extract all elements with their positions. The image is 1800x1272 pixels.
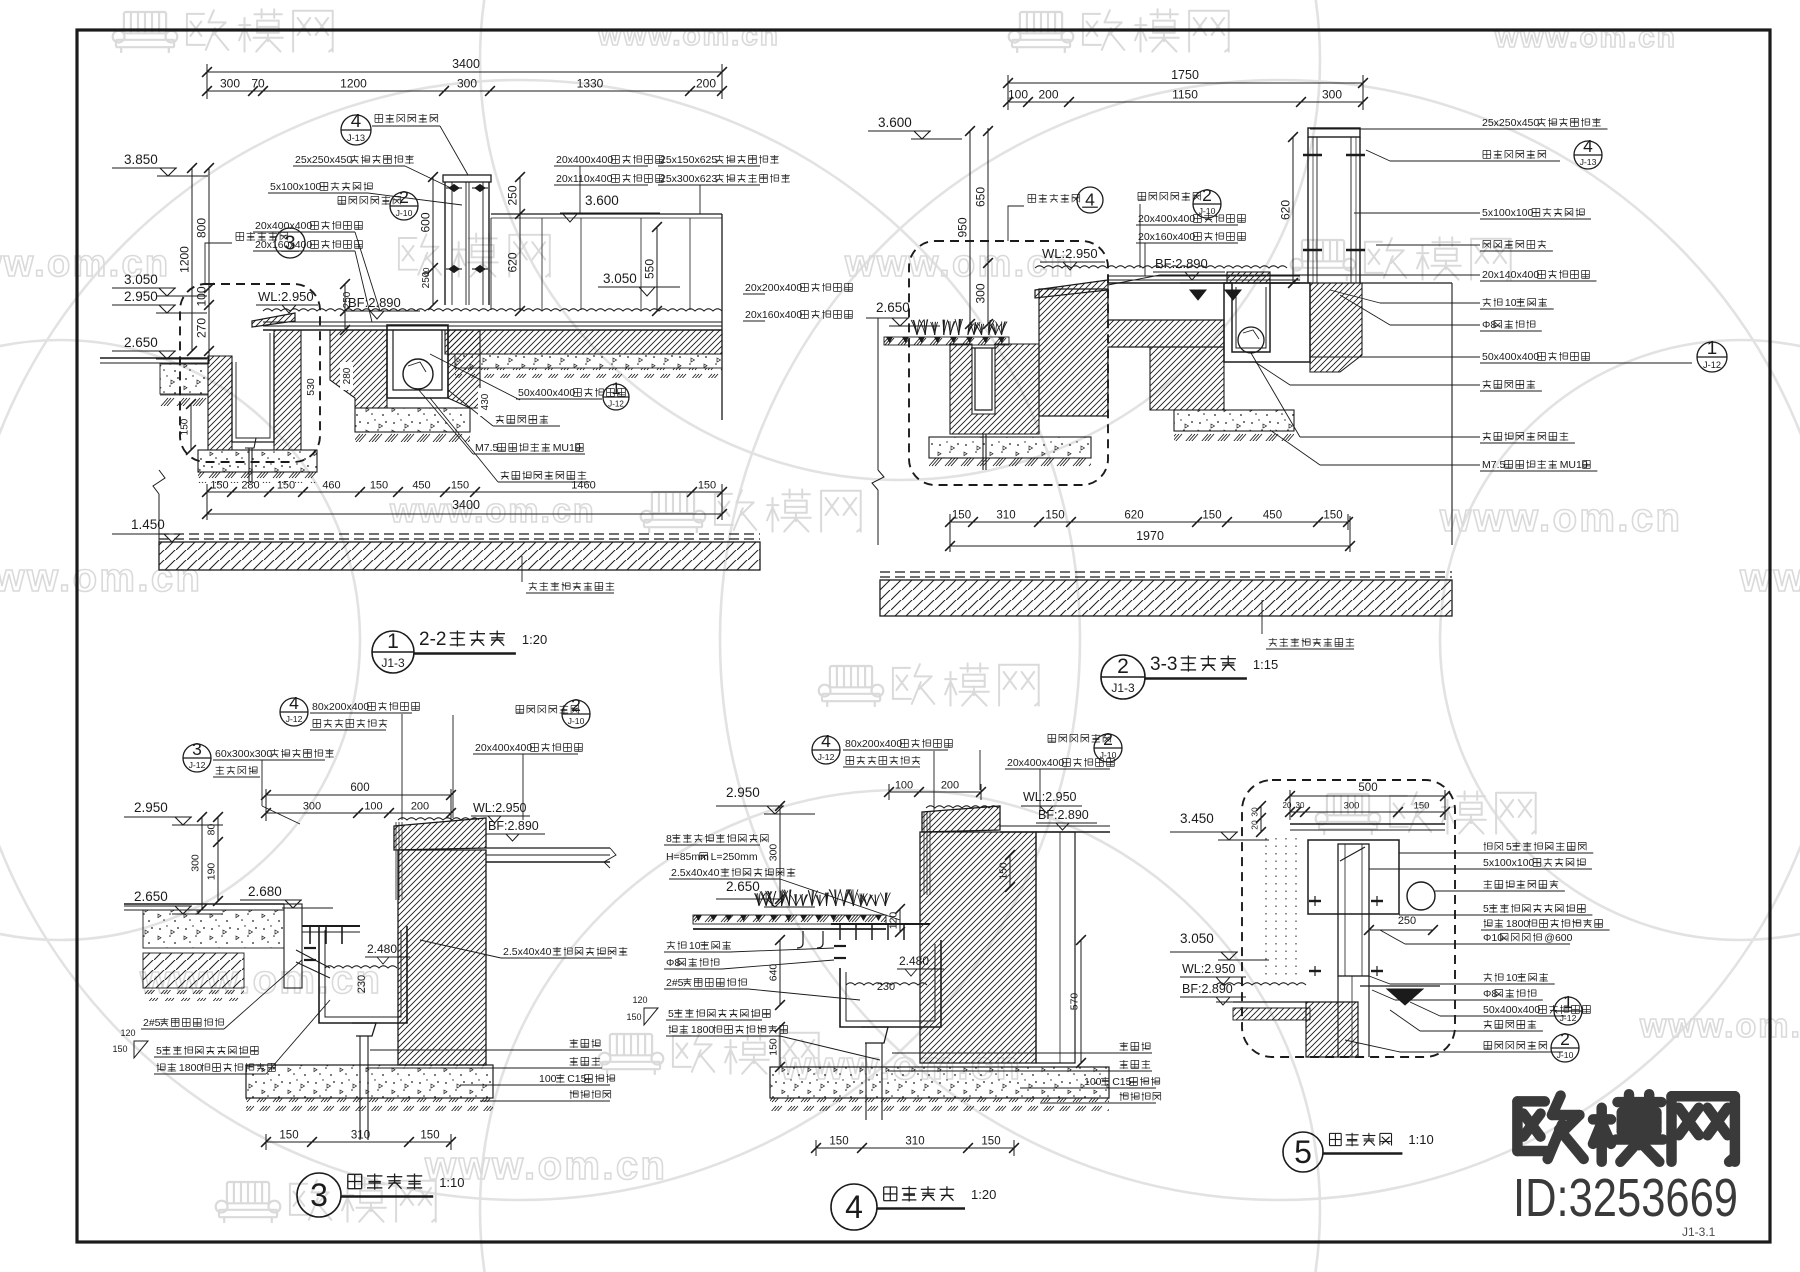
svg-text:WL:2.950: WL:2.950 (473, 801, 527, 815)
svg-text:150: 150 (1202, 510, 1221, 522)
svg-text:190: 190 (206, 863, 218, 881)
svg-text:3400: 3400 (452, 57, 480, 71)
svg-text:30: 30 (1296, 801, 1305, 810)
svg-text:3: 3 (192, 739, 202, 759)
watermark arcs (0, 80, 1080, 1200)
D2 basin floor layers (1108, 275, 1300, 277)
svg-text:300: 300 (190, 854, 202, 872)
svg-text:570: 570 (1069, 993, 1081, 1011)
svg-text:1:20: 1:20 (522, 632, 547, 647)
D1 left pool footing earth hatch (198, 472, 317, 483)
svg-text:2: 2 (1103, 729, 1113, 749)
svg-text:150: 150 (952, 510, 971, 522)
svg-text:80: 80 (206, 824, 218, 836)
svg-text:1460: 1460 (571, 480, 595, 492)
D3 leader drops (401, 714, 403, 820)
D3 title (297, 1173, 341, 1217)
D5 water curtain dashed (1265, 838, 1267, 975)
D4 right wall band (1036, 832, 1075, 1063)
D2 stone pillar top right (1308, 128, 1360, 137)
svg-text:2.650: 2.650 (876, 300, 910, 315)
svg-text:150: 150 (829, 1136, 848, 1148)
D3 basin floor right (486, 847, 610, 849)
svg-text:150: 150 (370, 480, 388, 492)
D5 label leaders (1399, 852, 1481, 854)
svg-text:2.5x40x40: 2.5x40x40 (671, 867, 720, 879)
svg-text:20x160x400: 20x160x400 (745, 309, 802, 321)
svg-text:J-13: J-13 (1580, 157, 1597, 167)
D2 slab label (1261, 600, 1263, 634)
svg-text:300: 300 (1322, 88, 1342, 102)
svg-text:150: 150 (1323, 510, 1342, 522)
D1 dim 150 left pool (190, 404, 192, 450)
svg-text:www.om.cn: www.om.cn (1494, 21, 1677, 54)
svg-text:100: 100 (1008, 88, 1028, 102)
site logo omw (1517, 1096, 1583, 1159)
svg-text:250: 250 (342, 291, 353, 308)
svg-text:230: 230 (356, 975, 368, 993)
D2 trough cover stone (1227, 272, 1270, 283)
svg-text:J1-3: J1-3 (381, 656, 405, 670)
D2 planter wall hatch (950, 344, 1039, 434)
svg-text:www.om.cn: www.om.cn (844, 243, 1075, 285)
svg-text:3.600: 3.600 (878, 115, 912, 130)
D5 bolts (1309, 900, 1321, 902)
svg-text:230: 230 (877, 981, 895, 993)
svg-text:WL:2.950: WL:2.950 (258, 289, 314, 304)
svg-text:20x200x400: 20x200x400 (745, 282, 802, 294)
D4 right labels (1120, 1042, 1151, 1051)
D1 title (372, 631, 414, 673)
svg-text:70: 70 (251, 77, 265, 91)
D2 left break line (877, 318, 879, 470)
svg-text:2: 2 (571, 695, 581, 715)
D1 shallow basin floor layers (263, 321, 722, 323)
D5 channel flap (1340, 847, 1365, 861)
svg-text:20x140x400: 20x140x400 (1482, 269, 1539, 281)
D3 left vertical dims (217, 817, 219, 901)
svg-text:@600: @600 (1544, 932, 1572, 944)
svg-text:5: 5 (1506, 841, 1512, 853)
svg-text:300: 300 (220, 77, 240, 91)
svg-text:2.650: 2.650 (726, 879, 760, 894)
svg-text:MU10: MU10 (553, 442, 581, 454)
D1 left pool outer wall hatch (208, 356, 232, 450)
svg-text:2: 2 (399, 187, 409, 207)
D1 mid hatched ground band (445, 330, 722, 354)
svg-text:150: 150 (277, 480, 295, 492)
D5 solid triangle mark (1387, 989, 1423, 1005)
D2 grass planting (911, 319, 1007, 335)
D3 wedge marks (134, 1041, 148, 1058)
svg-text:25x300x623: 25x300x623 (660, 173, 717, 185)
svg-text:300: 300 (768, 844, 780, 862)
svg-text:200: 200 (696, 77, 716, 91)
D2 right section edge (1451, 283, 1453, 545)
D3 coping stone slab (394, 818, 486, 850)
D2 planter drain pipe (982, 434, 984, 470)
svg-text:150: 150 (998, 862, 1010, 880)
svg-text:2.5x40x40: 2.5x40x40 (503, 946, 552, 958)
svg-text:2#5: 2#5 (666, 977, 684, 989)
svg-text:5x100x100: 5x100x100 (270, 181, 322, 193)
D5 ground hatch (1306, 1002, 1358, 1057)
svg-text:200: 200 (1038, 88, 1058, 102)
svg-text:BF:2.890: BF:2.890 (488, 819, 539, 833)
D1 bubble 2 J-10 pool detail (338, 196, 401, 205)
svg-text:2.680: 2.680 (248, 884, 282, 899)
D1 mid stipple band (455, 354, 722, 368)
D5 title (1283, 1132, 1323, 1172)
svg-text:4: 4 (1583, 136, 1593, 156)
D1 trough footing (355, 408, 470, 432)
D5 column below (1337, 976, 1339, 1057)
svg-text:3-3: 3-3 (1150, 654, 1177, 675)
svg-text:600: 600 (419, 212, 433, 232)
svg-text:50x400x400: 50x400x400 (1483, 1004, 1540, 1016)
svg-text:1750: 1750 (1171, 68, 1199, 82)
svg-text:1800: 1800 (691, 1024, 715, 1036)
svg-text:1800: 1800 (1506, 918, 1530, 930)
svg-text:50x400x400: 50x400x400 (1482, 351, 1539, 363)
D2 drain trough right (1224, 283, 1310, 362)
svg-text:BF:2.890: BF:2.890 (348, 295, 401, 310)
D2 ground marks right (1190, 290, 1206, 300)
svg-text:1:10: 1:10 (1408, 1132, 1433, 1147)
svg-text:J-12: J-12 (1560, 1013, 1577, 1023)
svg-text:J1-3: J1-3 (1111, 681, 1135, 695)
svg-text:310: 310 (351, 1130, 370, 1142)
svg-text:J-12: J-12 (286, 714, 303, 724)
D5 dashed callout box (1242, 780, 1455, 1057)
svg-text:80x200x400: 80x200x400 (312, 701, 369, 713)
D1 stone pillar (443, 175, 491, 182)
D2 planter tank liner (975, 348, 992, 410)
svg-text:5: 5 (156, 1045, 162, 1057)
svg-text:150: 150 (981, 1136, 1000, 1148)
D4 title (831, 1184, 877, 1230)
watermark logos (113, 12, 178, 53)
D1 lower right leader labels (430, 354, 520, 400)
svg-text:3.050: 3.050 (603, 271, 637, 286)
svg-text:620: 620 (506, 252, 520, 272)
svg-text:25x150x625: 25x150x625 (660, 154, 717, 166)
svg-text:20x400x400: 20x400x400 (1138, 213, 1195, 225)
svg-text:2.480: 2.480 (899, 954, 929, 968)
svg-text:10: 10 (689, 940, 701, 952)
D1 bubble 4 J-13 dry-hang (341, 115, 371, 145)
D5 small dims 30 20 (1260, 806, 1262, 832)
svg-text:4: 4 (289, 693, 299, 713)
svg-text:2.480: 2.480 (367, 942, 397, 956)
svg-text:150: 150 (279, 1130, 298, 1142)
D4 bottom dims (816, 1147, 1014, 1149)
svg-text:20x400x400: 20x400x400 (475, 742, 532, 754)
svg-text:950: 950 (956, 217, 970, 237)
D5 deck left (1233, 1001, 1310, 1003)
D4 bubble 4 J-12 (812, 736, 840, 764)
D2 pool-method bubble 2 J-10 (1138, 192, 1201, 201)
svg-text:100: 100 (195, 286, 209, 306)
svg-text:100: 100 (364, 801, 382, 813)
svg-text:2.650: 2.650 (134, 889, 168, 904)
D2 trough surround hatch (1310, 283, 1362, 372)
D1 tall pool right (491, 213, 722, 215)
svg-text:www.om.cn: www.om.cn (1439, 496, 1682, 540)
svg-text:80x200x400: 80x200x400 (845, 738, 902, 750)
svg-text:120: 120 (888, 912, 900, 930)
svg-text:www.om.cn: www.om.cn (389, 492, 596, 530)
svg-text:50x400x400: 50x400x400 (518, 387, 575, 399)
svg-text:2.950: 2.950 (134, 800, 168, 815)
svg-text:4: 4 (821, 731, 831, 751)
svg-text:BF:2.890: BF:2.890 (1038, 808, 1089, 822)
D3 overflow fall lines (395, 822, 397, 900)
svg-text:20x400x400: 20x400x400 (556, 154, 613, 166)
svg-text:3.600: 3.600 (585, 193, 619, 208)
svg-text:150: 150 (420, 1130, 439, 1142)
svg-text:2: 2 (1202, 185, 1212, 205)
D2 bottom dims (950, 521, 1348, 523)
D5 supply pipe circle (1407, 882, 1435, 910)
svg-text:150: 150 (626, 1012, 641, 1022)
D4 tank drain (861, 1027, 888, 1043)
svg-text:25x250x450: 25x250x450 (295, 154, 352, 166)
D4 planter bracket (831, 923, 930, 925)
svg-text:310: 310 (996, 510, 1015, 522)
D1 left pool footing (198, 450, 317, 472)
svg-text:120: 120 (120, 1028, 135, 1038)
svg-text:5x100x100: 5x100x100 (1482, 207, 1534, 219)
svg-text:1.450: 1.450 (131, 517, 165, 532)
D1 left pool drain funnel and pipe (243, 438, 256, 448)
D3 bottom dims (266, 1141, 451, 1143)
D2 detail-two callout bubble 4 (1028, 194, 1080, 203)
svg-text:5: 5 (1294, 1134, 1312, 1170)
svg-text:BF:2.890: BF:2.890 (1182, 982, 1233, 996)
D1 left deck mortar bed stipple (160, 364, 208, 394)
svg-text:WL:2.950: WL:2.950 (1182, 962, 1236, 976)
D5 lower water (1216, 983, 1306, 985)
svg-text:20x400x400: 20x400x400 (255, 220, 312, 232)
D3 water tank (319, 926, 407, 1023)
D4 J hooks (797, 931, 803, 948)
svg-text:300: 300 (457, 77, 477, 91)
svg-text:310: 310 (905, 1136, 924, 1148)
svg-text:450: 450 (1263, 510, 1282, 522)
svg-text:60x300x300: 60x300x300 (215, 748, 272, 760)
svg-text:3400: 3400 (452, 498, 480, 512)
svg-text:1: 1 (387, 630, 399, 653)
D4 left labels lower (667, 941, 687, 950)
svg-text:450: 450 (412, 480, 430, 492)
svg-text:WL:2.950: WL:2.950 (1023, 790, 1077, 804)
svg-text:3.050: 3.050 (124, 272, 158, 287)
D1 left deck earth hatch (160, 395, 208, 406)
svg-text:1:20: 1:20 (971, 1187, 996, 1202)
svg-text:J1-3.1: J1-3.1 (1682, 1225, 1716, 1239)
svg-text:3.050: 3.050 (1180, 931, 1214, 946)
D4 leader drops (933, 751, 935, 812)
D1 drain pipe circle (403, 359, 433, 389)
svg-text:WL:2.950: WL:2.950 (1042, 246, 1098, 261)
D3 deck support column (284, 904, 302, 988)
D1 bottom dims (207, 491, 722, 493)
svg-text:C15: C15 (1112, 1076, 1131, 1088)
D1 slab label (521, 556, 523, 582)
svg-text:J-10: J-10 (396, 208, 413, 218)
svg-text:2#5: 2#5 (143, 1017, 161, 1029)
D4 coping slanted (922, 806, 1000, 832)
svg-text:5: 5 (1483, 903, 1489, 915)
svg-text:1:15: 1:15 (1253, 657, 1278, 672)
svg-text:1: 1 (1707, 337, 1717, 358)
svg-text:200: 200 (941, 780, 959, 792)
svg-text:300: 300 (974, 283, 988, 303)
svg-text:3: 3 (310, 1177, 328, 1213)
D2 pool coping slanted (1035, 280, 1108, 298)
svg-text:150: 150 (451, 480, 469, 492)
svg-text:2.950: 2.950 (124, 289, 158, 304)
svg-text:8: 8 (666, 833, 672, 845)
svg-text:10: 10 (1505, 297, 1517, 309)
svg-text:1800: 1800 (179, 1062, 203, 1074)
svg-text:600: 600 (350, 782, 369, 794)
svg-text:2: 2 (1560, 1029, 1570, 1049)
svg-text:2.950: 2.950 (726, 785, 760, 800)
D4 pool floor right (1000, 825, 1110, 827)
D2 roof slab (880, 571, 1452, 573)
svg-text:J-12: J-12 (608, 399, 624, 408)
D1 roof slab membrane dashed (159, 533, 760, 535)
svg-text:100: 100 (539, 1073, 557, 1085)
D4 grass (755, 889, 891, 906)
D4 vertical dim 570 (1080, 940, 1082, 1063)
svg-text:www.om.cn: www.om.cn (1639, 1007, 1800, 1045)
svg-text:100: 100 (895, 780, 913, 792)
svg-text:280: 280 (342, 367, 353, 384)
D1 vertical dims in pool (519, 177, 521, 311)
D1 left deck at 2.650 (100, 357, 208, 359)
svg-text:2-2: 2-2 (419, 629, 446, 650)
D3 left deck (124, 903, 284, 905)
svg-text:20x110x400: 20x110x400 (556, 173, 613, 185)
D1 dim 530 inside wall (303, 370, 317, 404)
svg-text:M7.5: M7.5 (475, 442, 499, 454)
D5 top slab (1290, 823, 1445, 825)
D2 main pool wall hatch (1039, 289, 1224, 416)
D4 bubble 2 J-10 (1048, 734, 1111, 743)
D1 roof slab concrete hatch (159, 542, 760, 570)
svg-text:20x160x400: 20x160x400 (1138, 231, 1195, 243)
svg-text:H=85mm: H=85mm (666, 851, 709, 863)
svg-text:300: 300 (303, 801, 321, 813)
svg-text:650: 650 (974, 187, 988, 207)
D3 bubble 2 J-10 (516, 705, 579, 714)
svg-text:620: 620 (1124, 510, 1143, 522)
D1 left pool inner wall hatch (274, 330, 301, 450)
D1 left pool coping stone (252, 313, 295, 327)
D5 right label stack (1484, 842, 1503, 851)
svg-text:640: 640 (768, 964, 780, 982)
svg-text:430: 430 (480, 393, 491, 410)
svg-text:800: 800 (195, 218, 209, 238)
D5 water feature box (1308, 840, 1399, 914)
svg-text:120: 120 (632, 995, 647, 1005)
svg-text:5: 5 (668, 1008, 674, 1020)
svg-text:150: 150 (1045, 510, 1064, 522)
svg-text:C15: C15 (567, 1073, 586, 1085)
svg-text:www.om.cn: www.om.cn (597, 19, 780, 52)
svg-text:J-12: J-12 (189, 760, 206, 770)
svg-text:3.850: 3.850 (124, 152, 158, 167)
D3 bubble 4 J-12 (280, 698, 308, 726)
svg-text:1970: 1970 (1136, 529, 1164, 543)
D4 main wall hatch (920, 832, 1036, 1063)
svg-text:20: 20 (1250, 820, 1260, 830)
svg-text:1200: 1200 (340, 77, 367, 91)
svg-text:1200: 1200 (178, 246, 192, 273)
svg-text:BF:2.890: BF:2.890 (1155, 256, 1208, 271)
D3 pool wall hatch (398, 850, 486, 1065)
svg-text:5x100x100: 5x100x100 (1483, 857, 1535, 869)
svg-text:250: 250 (1398, 915, 1416, 927)
D2 title (1101, 655, 1145, 699)
svg-text:280: 280 (241, 480, 259, 492)
svg-text:L=250mm: L=250mm (711, 851, 758, 863)
svg-text:150: 150 (210, 480, 228, 492)
svg-text:460: 460 (322, 480, 340, 492)
D1 bubble 3 detail one (236, 232, 288, 241)
D1 mid earth band (455, 368, 722, 378)
D2 right footing (1174, 410, 1294, 431)
svg-text:MU10: MU10 (1560, 459, 1588, 471)
svg-text:J-12: J-12 (1703, 360, 1721, 370)
svg-text:1: 1 (611, 380, 620, 398)
svg-text:20x160x400: 20x160x400 (255, 239, 312, 251)
svg-text:300: 300 (1344, 801, 1360, 812)
svg-text:20: 20 (1283, 801, 1292, 810)
svg-text:1: 1 (1563, 992, 1573, 1012)
svg-text:4: 4 (1085, 190, 1095, 210)
D1 left vertical dims (208, 168, 210, 351)
svg-text:100: 100 (1084, 1076, 1102, 1088)
D1 break mark left (153, 470, 165, 494)
D2 pillar vertical dim 620 (1292, 137, 1294, 283)
svg-text:150: 150 (180, 418, 191, 435)
svg-text:150: 150 (698, 480, 716, 492)
D2 drain pipe circle (1238, 327, 1264, 353)
svg-text:4: 4 (351, 110, 361, 131)
svg-text:150: 150 (768, 1038, 780, 1056)
svg-text:J-13: J-13 (347, 133, 365, 143)
svg-text:40: 40 (422, 267, 431, 276)
svg-text:M7.5: M7.5 (1482, 459, 1506, 471)
svg-text:2.650: 2.650 (124, 335, 158, 350)
svg-text:4: 4 (845, 1189, 863, 1225)
D3 footing (246, 1065, 493, 1098)
D3 steel bracket (302, 925, 360, 927)
svg-text:250: 250 (506, 185, 520, 205)
D4 vertical dims left (779, 806, 781, 899)
D1 left pool trough liner (232, 333, 274, 442)
svg-text:J-10: J-10 (568, 716, 585, 726)
D3 bubble 3 J-12 (183, 744, 211, 772)
svg-text:270: 270 (195, 318, 209, 338)
svg-text:150: 150 (112, 1044, 127, 1054)
D2 soil strip (884, 337, 1009, 345)
svg-text:150: 150 (1414, 801, 1430, 812)
